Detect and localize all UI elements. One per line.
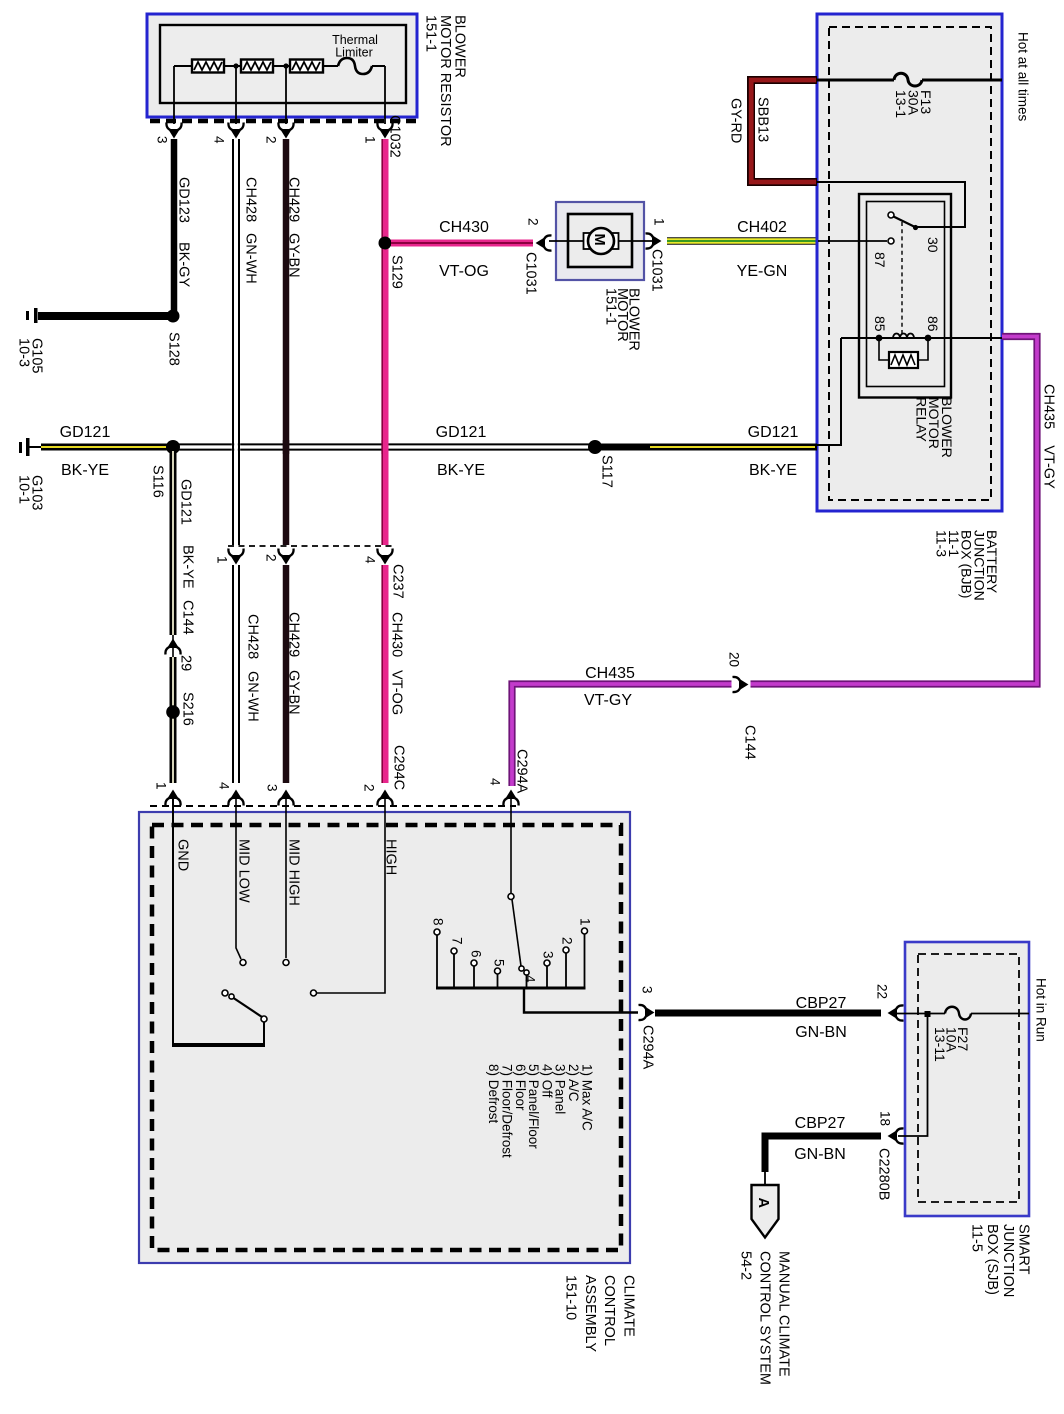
svg-text:8: 8: [430, 918, 445, 926]
svg-text:3: 3: [264, 784, 279, 792]
svg-text:GD121: GD121: [178, 479, 194, 525]
svg-text:87: 87: [872, 252, 888, 268]
fan switch common contact: [261, 1016, 267, 1022]
resistor element 3: [290, 60, 323, 73]
label smart junction box: [969, 1224, 1032, 1297]
blower motor M symbol: [584, 228, 619, 254]
svg-text:4: 4: [488, 778, 503, 786]
connector C1031 pin 1: [646, 233, 661, 248]
connector C237 pin 2: [278, 549, 293, 564]
wire CH402 YE-GN: [667, 237, 817, 245]
relay parallel resistor: [879, 338, 928, 368]
wire pin2 branch inside resistor box: [285, 66, 287, 124]
node junction resistor chain left: [233, 63, 238, 68]
svg-text:CH435: CH435: [585, 665, 635, 682]
connector C294A pin 3: [639, 1005, 654, 1020]
relay coil node 85: [876, 335, 883, 342]
blower motor resistor box 151-1: [147, 14, 417, 117]
battery junction box BJB: [817, 14, 1002, 511]
mode switch contact 2: [563, 947, 569, 988]
connector C144 pin 20 on CH435: [733, 677, 748, 692]
wire CH430 VT-OG horizontal to blower motor: [391, 240, 533, 247]
connector C144 pin 29 on GD121: [165, 640, 180, 655]
mode switch contact 4 stem: [526, 975, 528, 988]
svg-text:ASSEMBLY: ASSEMBLY: [582, 1275, 598, 1352]
splice S216: [166, 705, 180, 719]
wire GD121 BK-YE vertical below S116: [170, 451, 177, 783]
svg-text:VT-GY: VT-GY: [584, 692, 632, 709]
wire hot feed to fuse F13: [817, 79, 1002, 82]
svg-text:6: 6: [468, 950, 483, 958]
svg-text:C294A: C294A: [514, 749, 530, 794]
mode switch wiper arm: [512, 900, 529, 976]
svg-text:11-3: 11-3: [934, 530, 950, 557]
svg-text:C1031: C1031: [649, 249, 665, 292]
mode switch contact 6: [471, 960, 477, 988]
splice S129: [379, 237, 392, 250]
ground G105 symbol: [26, 308, 38, 323]
svg-text:MANUAL CLIMATE: MANUAL CLIMATE: [776, 1251, 792, 1377]
node junction resistor chain right: [283, 63, 288, 68]
mode switch bus bar: [436, 987, 586, 990]
wire CH429 crossing rail (over): [283, 440, 290, 454]
wire pin3 branch inside resistor box: [173, 66, 175, 124]
wire MID HIGH inside climate box: [285, 791, 287, 958]
svg-text:BK-YE: BK-YE: [437, 462, 485, 479]
svg-text:CBP27: CBP27: [796, 995, 847, 1012]
svg-text:BK-GY: BK-GY: [176, 242, 192, 287]
wire GD121 BK-YE rail left segment: [41, 444, 173, 451]
label battery junction box: [934, 530, 1000, 601]
svg-text:CH435 VT-GY: CH435 VT-GY: [1041, 384, 1057, 489]
svg-text:GD121: GD121: [436, 424, 487, 441]
label blower motor: [603, 288, 642, 351]
svg-text:86: 86: [925, 316, 941, 332]
svg-text:2: 2: [263, 554, 278, 562]
svg-text:3: 3: [540, 951, 555, 959]
svg-text:1: 1: [652, 218, 667, 226]
connector C294C pin 4: [228, 791, 243, 806]
label blower motor relay: [913, 397, 955, 458]
relay mechanical link dashed: [901, 222, 903, 334]
svg-text:151-1: 151-1: [603, 288, 619, 325]
svg-text:C1031: C1031: [523, 252, 539, 295]
connector C1032 pin 1: [377, 123, 392, 138]
node junction SJB: [925, 1011, 931, 1017]
svg-text:RELAY: RELAY: [913, 397, 929, 443]
svg-text:5: 5: [491, 959, 506, 967]
connector C2280A pin 22: [889, 1005, 904, 1020]
svg-text:CONTROL SYSTEM: CONTROL SYSTEM: [757, 1251, 773, 1385]
svg-text:GN-WH: GN-WH: [245, 671, 261, 722]
svg-text:1: 1: [214, 556, 229, 564]
svg-text:YE-GN: YE-GN: [737, 263, 788, 280]
svg-text:SBB13: SBB13: [755, 97, 771, 142]
wire through blower motor: [549, 240, 656, 242]
connector C294C pin 1: [165, 791, 180, 806]
connector C237 pin 4: [377, 549, 392, 564]
svg-text:BK-YE: BK-YE: [749, 462, 797, 479]
svg-text:22: 22: [874, 984, 889, 999]
wire CH429 GY-BN lower: [283, 565, 290, 783]
svg-text:GY-RD: GY-RD: [728, 98, 744, 143]
mode switch contact 1: [582, 928, 588, 988]
svg-text:GD123: GD123: [176, 177, 192, 223]
svg-text:MID LOW: MID LOW: [236, 839, 252, 903]
svg-text:13-1: 13-1: [893, 90, 909, 118]
svg-text:GD121: GD121: [748, 424, 799, 441]
svg-text:CONTROL: CONTROL: [601, 1275, 617, 1346]
relay contact 87: [888, 238, 894, 244]
svg-text:SMART: SMART: [1016, 1224, 1032, 1275]
relay coil wire 85-86: [841, 337, 1002, 339]
svg-text:JUNCTION: JUNCTION: [1000, 1224, 1016, 1297]
svg-text:CH428: CH428: [245, 614, 261, 659]
ground G103 symbol: [19, 438, 41, 456]
svg-text:CH428: CH428: [243, 177, 259, 222]
connector C1032 pin 3: [166, 123, 181, 138]
wire CBP27 GN-BN to SJB pin 22: [655, 1010, 881, 1017]
wire MID LOW inside climate box: [236, 791, 241, 959]
wire mode switch output to C294A pin 3: [524, 988, 638, 1013]
connector C1032 pin 4: [228, 123, 243, 138]
wire CH429 GY-BN upper: [283, 139, 290, 545]
wire GD121 rail right segment: [595, 444, 817, 451]
svg-text:3: 3: [639, 986, 654, 994]
mode switch contact 8: [434, 929, 440, 988]
connector C237 dashed face: [228, 545, 392, 547]
svg-text:S117: S117: [599, 455, 615, 488]
connector C1031 pin 2: [537, 235, 552, 250]
fan switch MID LOW contact: [240, 960, 246, 966]
connector C294C dashed face: [150, 805, 516, 807]
svg-text:C2280B: C2280B: [876, 1148, 892, 1200]
svg-text:2: 2: [263, 136, 278, 144]
wire pin4 branch inside resistor box: [235, 66, 237, 124]
wire CH430 crossing rail (over): [382, 440, 385, 454]
svg-text:M: M: [591, 234, 607, 246]
svg-text:GN-BN: GN-BN: [795, 1024, 847, 1041]
svg-text:2: 2: [361, 784, 376, 792]
label mode switch legend: [486, 1064, 594, 1158]
svg-text:MID HIGH: MID HIGH: [286, 839, 302, 906]
wire SJB branch to pin 18: [898, 1013, 928, 1136]
svg-text:1: 1: [577, 918, 592, 926]
svg-text:4: 4: [362, 556, 377, 564]
smart junction box SJB: [905, 942, 1029, 1216]
wire CH435 VT-GY purple: [512, 337, 1037, 787]
connector C1032 pin 2: [278, 123, 293, 138]
wire pin1 branch inside resistor box: [384, 66, 386, 124]
svg-text:10-3: 10-3: [16, 338, 32, 367]
resistor chain wire: [174, 65, 385, 67]
resistor element 2: [241, 60, 273, 73]
wire fuse output to relay contact 30: [817, 182, 965, 227]
mode switch contact 3: [544, 960, 550, 988]
svg-text:18: 18: [877, 1111, 892, 1126]
connector C237 pin 1: [228, 549, 243, 564]
svg-text:13-11: 13-11: [932, 1027, 948, 1062]
svg-text:CLIMATE: CLIMATE: [621, 1275, 637, 1337]
wire GND inside climate box: [173, 791, 264, 1045]
svg-text:Hot at all times: Hot at all times: [1015, 32, 1030, 122]
svg-text:CBP27: CBP27: [795, 1115, 846, 1132]
fan switch MID HIGH contact: [283, 960, 289, 966]
svg-text:GY-BN: GY-BN: [286, 233, 302, 278]
label fuse F13: [893, 90, 934, 118]
svg-text:C144: C144: [180, 600, 196, 635]
mode switch pivot: [508, 894, 514, 900]
svg-text:Hot in Run: Hot in Run: [1033, 978, 1048, 1042]
connector C294C pin 2: [377, 791, 392, 806]
wire CH430 VT-OG lower (pink): [382, 565, 385, 783]
svg-text:VT-OG: VT-OG: [439, 263, 489, 280]
svg-text:S216: S216: [180, 692, 196, 726]
svg-text:29: 29: [178, 655, 194, 671]
svg-text:CH429: CH429: [286, 612, 302, 657]
svg-text:GND: GND: [175, 839, 191, 871]
svg-text:CH429: CH429: [286, 177, 302, 222]
wire GD123 to ground G105: [38, 312, 173, 320]
wire relay 85 to GD121 exit: [817, 338, 841, 445]
svg-text:3: 3: [154, 136, 169, 144]
svg-text:2: 2: [559, 937, 574, 945]
svg-text:85: 85: [872, 316, 888, 332]
climate control assembly box: [139, 812, 630, 1263]
label G105 10-3: [16, 338, 45, 373]
svg-text:GY-BN: GY-BN: [286, 670, 302, 715]
resistor element 1: [192, 60, 224, 73]
fuse F27 10A: [945, 1007, 971, 1020]
wire CH430 VT-OG upper (pink): [382, 139, 385, 545]
svg-text:GN-BN: GN-BN: [794, 1146, 846, 1163]
wire CBP27 GN-BN to manual climate control: [765, 1136, 881, 1172]
svg-text:GD121: GD121: [60, 424, 111, 441]
svg-text:CH402: CH402: [737, 219, 787, 236]
svg-text:11-5: 11-5: [969, 1224, 985, 1252]
svg-text:4: 4: [211, 136, 226, 144]
wire CH402 into relay pin 87: [818, 240, 887, 242]
relay switch arm pin 30: [888, 212, 918, 230]
connector C294A pin 4: [503, 791, 518, 806]
label climate control assembly: [562, 1275, 636, 1352]
svg-text:HIGH: HIGH: [383, 839, 399, 875]
svg-text:BK-YE: BK-YE: [180, 545, 196, 589]
svg-text:A: A: [755, 1198, 771, 1209]
splice S116: [166, 440, 180, 454]
splice S117: [588, 440, 602, 454]
fan switch arm: [222, 990, 262, 1017]
svg-text:30: 30: [925, 237, 941, 253]
label thermal limiter: [332, 33, 378, 60]
svg-text:4: 4: [216, 782, 231, 790]
wire CH428 GN-WH lower (double line): [233, 565, 239, 783]
thermal limiter element: [338, 58, 372, 74]
wire CH428 GN-WH upper (double line): [233, 139, 239, 545]
wire mode switch feed from C294A pin4: [510, 792, 512, 893]
svg-text:C294A: C294A: [640, 1025, 656, 1070]
svg-text:CH430: CH430: [439, 219, 489, 236]
svg-text:GN-WH: GN-WH: [243, 233, 259, 284]
svg-text:Limiter: Limiter: [335, 46, 373, 60]
circuit arrow A manual climate control system: [752, 1185, 779, 1238]
svg-text:BK-YE: BK-YE: [61, 462, 109, 479]
fan switch HIGH contact: [311, 990, 317, 996]
fuse F13 30A: [894, 73, 922, 86]
svg-text:151-1: 151-1: [423, 15, 439, 52]
svg-text:S129: S129: [389, 255, 405, 289]
wire SBB13 GY-RD loop (red): [751, 80, 817, 182]
mode switch contact 7: [451, 948, 457, 988]
blower motor relay box: [859, 194, 951, 398]
label manual climate control system: [738, 1251, 792, 1385]
connector C294C pin 3: [278, 791, 293, 806]
wire GD121 rail middle segment (double line): [173, 444, 595, 449]
wire CH428 crossing rail (over): [233, 440, 239, 454]
connector C1032 dashed face: [150, 119, 417, 124]
svg-text:1: 1: [362, 136, 377, 144]
svg-text:BOX (SJB): BOX (SJB): [984, 1224, 1000, 1295]
svg-text:10-1: 10-1: [16, 475, 32, 504]
svg-text:S128: S128: [166, 332, 182, 366]
mode switch contact 5: [495, 968, 501, 988]
wire SJB pin 22 to fuse F27: [897, 1013, 1029, 1015]
svg-text:2: 2: [526, 218, 541, 226]
splice S128: [167, 310, 180, 323]
svg-text:20: 20: [727, 652, 742, 667]
svg-text:CH430: CH430: [389, 612, 405, 657]
relay coil: [893, 334, 914, 339]
relay coil node 86: [925, 335, 932, 342]
svg-text:C294C: C294C: [391, 745, 407, 790]
label fuse F27: [932, 1027, 971, 1062]
connector C2280B pin 18: [889, 1128, 904, 1143]
svg-text:1: 1: [153, 782, 168, 790]
svg-text:151-10: 151-10: [562, 1275, 578, 1320]
svg-text:C1032: C1032: [387, 115, 403, 158]
svg-text:C144: C144: [742, 725, 758, 760]
wire HIGH inside climate box: [317, 791, 385, 993]
svg-text:7: 7: [449, 937, 464, 945]
wire stub to circuit arrow A: [764, 1172, 766, 1185]
wire GD123 BK-GY vertical: [171, 139, 178, 316]
svg-text:VT-OG: VT-OG: [389, 670, 405, 715]
svg-text:54-2: 54-2: [738, 1251, 754, 1280]
svg-text:4: 4: [522, 975, 537, 983]
label blower motor resistor: [423, 15, 468, 147]
svg-text:C237: C237: [390, 564, 406, 599]
svg-text:S116: S116: [150, 465, 166, 498]
blower motor box: [556, 202, 644, 280]
svg-text:8) Defrost: 8) Defrost: [486, 1064, 501, 1124]
wire GND bottom thick segment: [172, 1043, 265, 1047]
label G103 10-1: [16, 475, 45, 510]
